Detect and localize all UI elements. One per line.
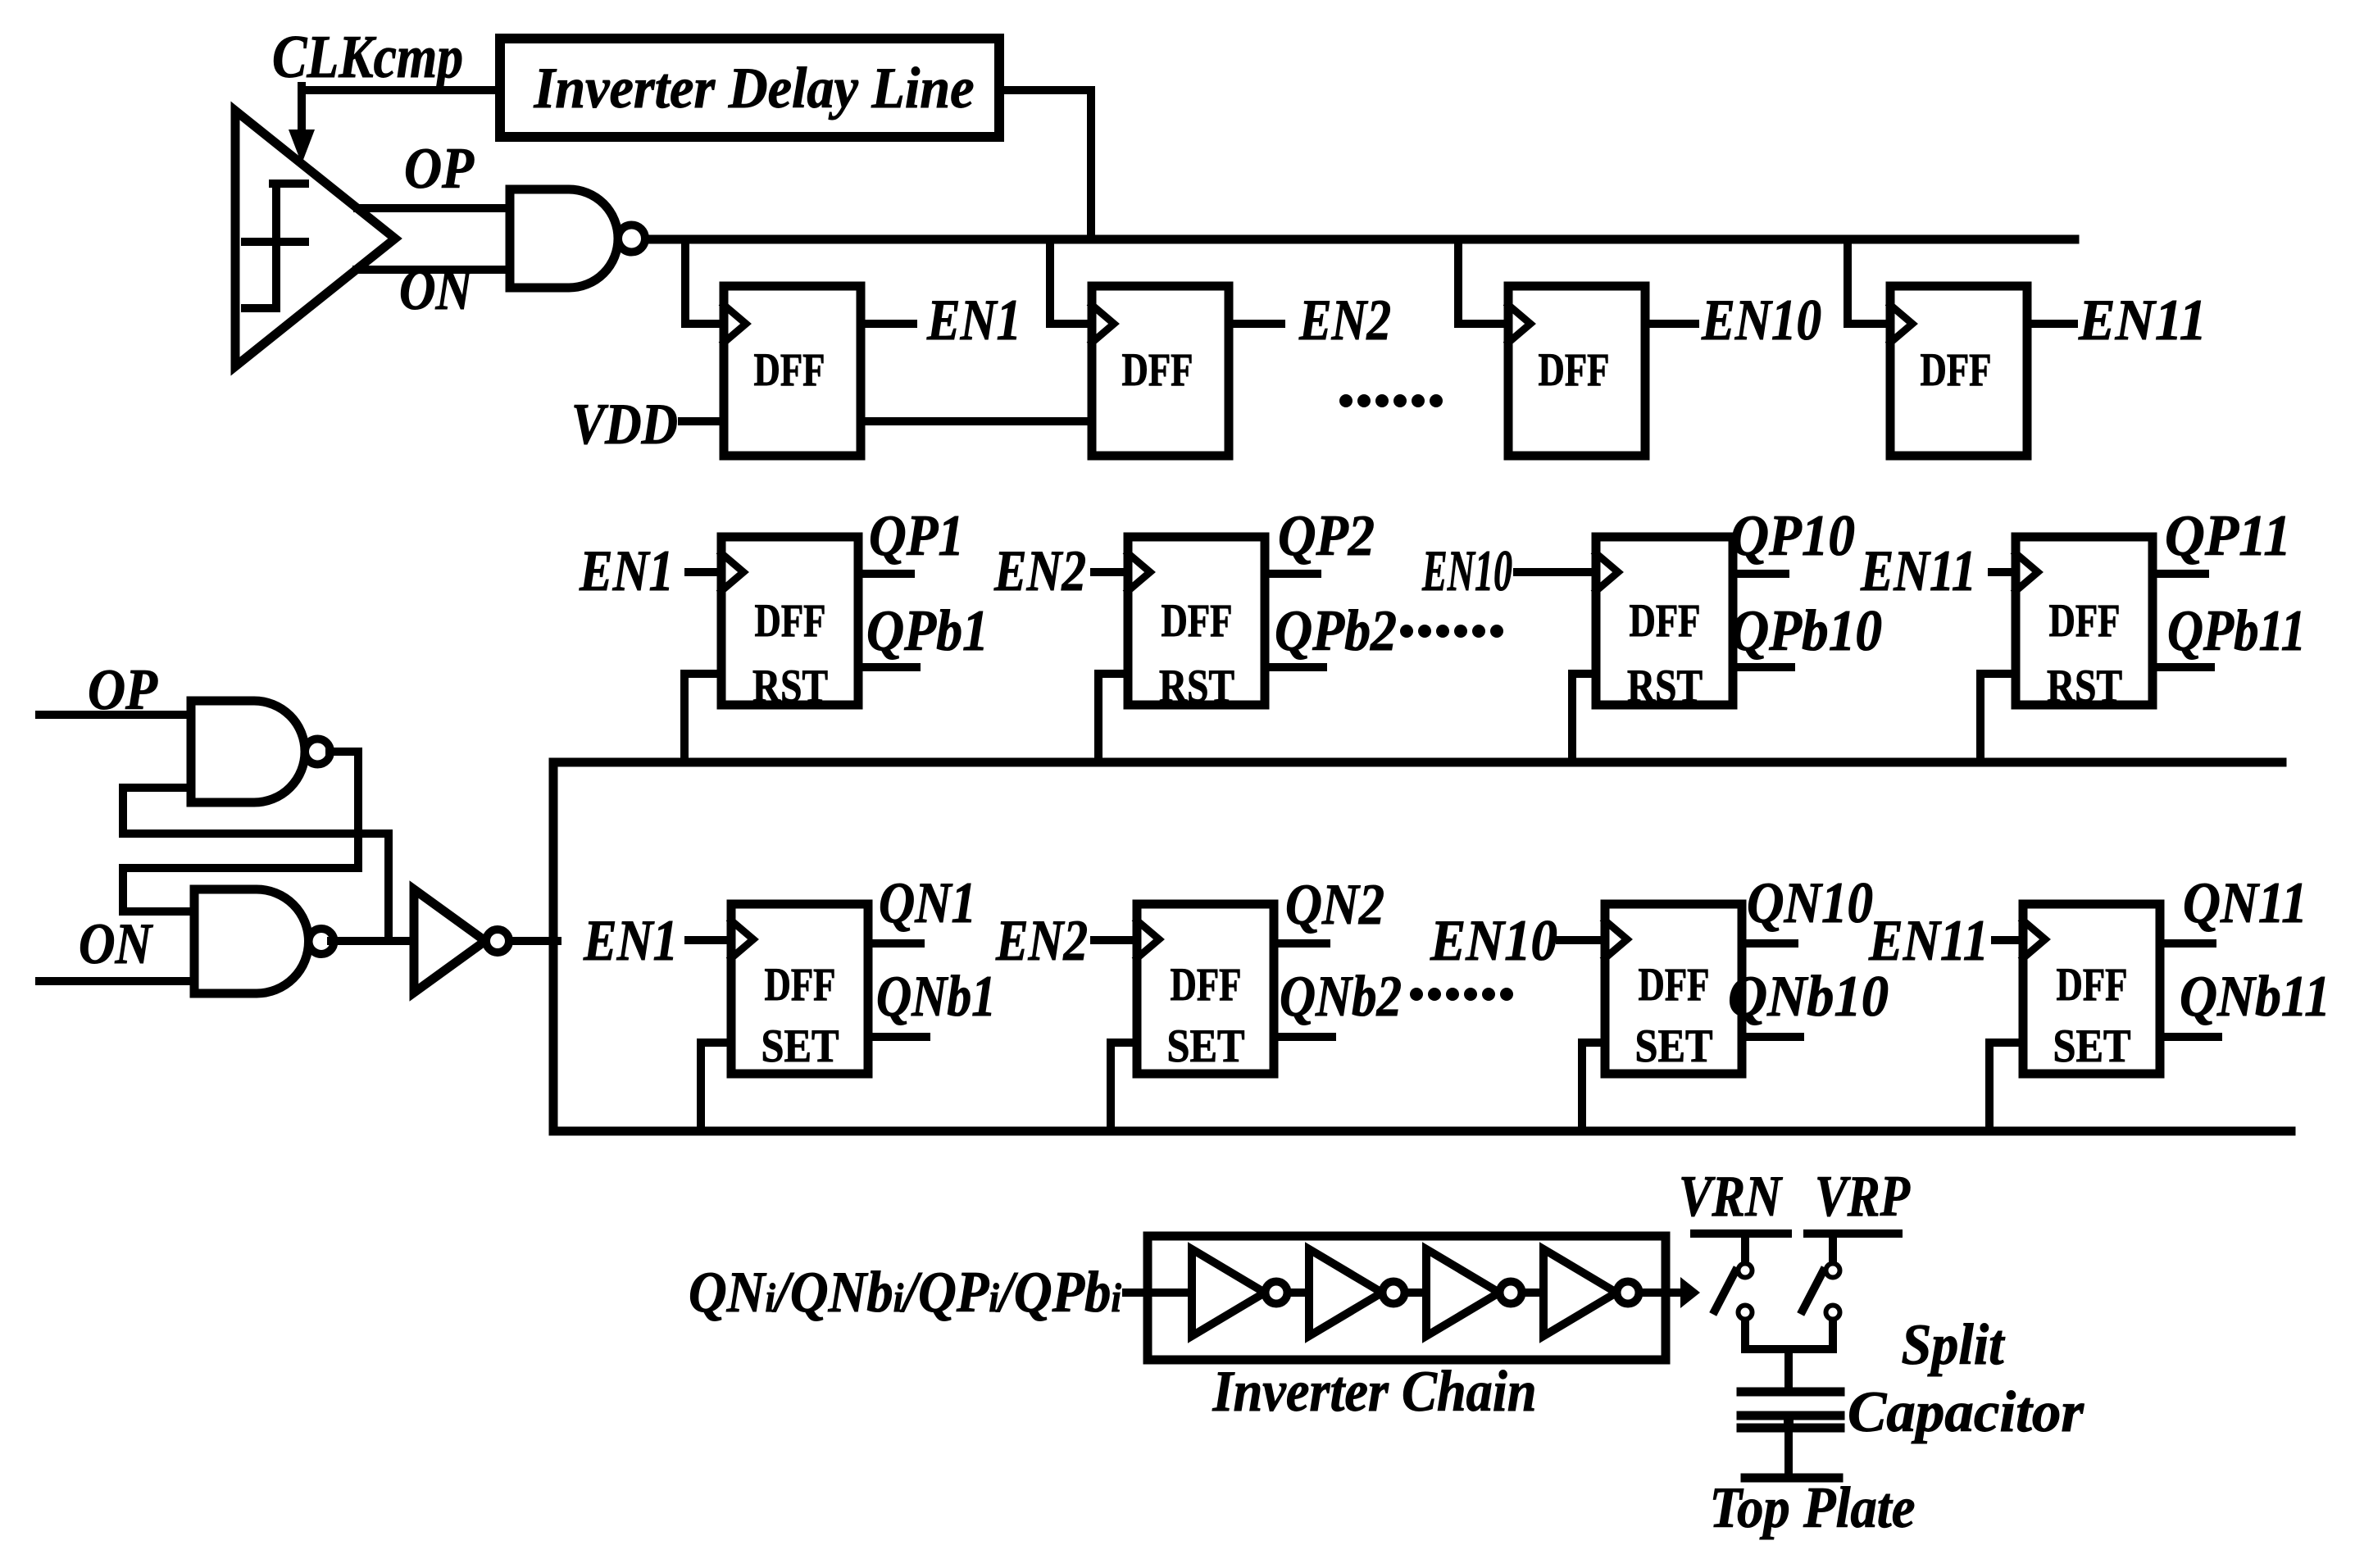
svg-text:DFF: DFF	[2057, 959, 2128, 1011]
svg-text:QN2: QN2	[1285, 873, 1384, 937]
svg-text:VDD: VDD	[571, 393, 678, 457]
svg-text:DFF: DFF	[1630, 595, 1701, 647]
svg-text:QP11: QP11	[2165, 504, 2291, 568]
svg-text:EN11: EN11	[1860, 539, 1976, 603]
svg-text:SET: SET	[1635, 1020, 1713, 1072]
svg-text:OP: OP	[404, 137, 475, 201]
svg-text:DFF: DFF	[754, 344, 825, 396]
svg-text:ON: ON	[79, 912, 153, 976]
svg-text:QNb2: QNb2	[1280, 965, 1402, 1029]
svg-text:DFF: DFF	[1162, 595, 1233, 647]
svg-text:DFF: DFF	[1639, 959, 1710, 1011]
svg-text:EN1: EN1	[579, 539, 674, 603]
svg-text:SET: SET	[762, 1020, 839, 1072]
svg-text:QP10: QP10	[1730, 504, 1855, 568]
svg-text:DFF: DFF	[1539, 344, 1610, 396]
svg-text:RST: RST	[1627, 661, 1703, 712]
svg-text:QNb1: QNb1	[876, 965, 996, 1029]
svg-text:QN10: QN10	[1747, 871, 1873, 935]
svg-text:RST: RST	[752, 661, 828, 712]
svg-text:RST: RST	[1159, 661, 1234, 712]
svg-text:SET: SET	[2053, 1020, 2131, 1072]
svg-text:DFF: DFF	[765, 959, 836, 1011]
svg-text:QN1: QN1	[879, 871, 976, 935]
svg-text:EN10: EN10	[1701, 289, 1821, 352]
svg-text:VRP: VRP	[1815, 1165, 1911, 1229]
svg-text:QP2: QP2	[1278, 504, 1375, 568]
svg-text:EN1: EN1	[926, 289, 1021, 352]
svg-text:EN2: EN2	[995, 909, 1088, 973]
svg-text:ON: ON	[399, 258, 474, 322]
svg-text:EN10: EN10	[1421, 539, 1512, 603]
svg-text:EN1: EN1	[583, 909, 678, 973]
svg-text:Capacitor: Capacitor	[1848, 1380, 2084, 1444]
svg-text:QNi/QNbi/QPi/QPbi: QNi/QNbi/QPi/QPbi	[689, 1261, 1121, 1325]
svg-text:EN11: EN11	[2078, 289, 2207, 352]
svg-text:QPb1: QPb1	[866, 599, 989, 663]
svg-text:Inverter Chain: Inverter Chain	[1212, 1360, 1537, 1424]
svg-text:Inverter Delay Line: Inverter Delay Line	[534, 57, 975, 120]
svg-text:DFF: DFF	[1122, 344, 1193, 396]
svg-text:VRN: VRN	[1679, 1165, 1783, 1229]
svg-text:Split: Split	[1902, 1313, 2006, 1377]
svg-text:DFF: DFF	[2049, 595, 2121, 647]
svg-text:EN2: EN2	[993, 539, 1086, 603]
svg-text:RST: RST	[2047, 661, 2122, 712]
svg-text:EN2: EN2	[1298, 289, 1391, 352]
svg-text:QNb10: QNb10	[1728, 965, 1889, 1029]
svg-text:DFF: DFF	[1921, 344, 1992, 396]
svg-text:Top Plate: Top Plate	[1710, 1476, 1916, 1540]
svg-text:QPb10: QPb10	[1730, 599, 1882, 663]
svg-text:QPb2: QPb2	[1275, 599, 1397, 663]
svg-text:DFF: DFF	[1171, 959, 1242, 1011]
svg-text:CLKcmp: CLKcmp	[272, 24, 463, 91]
svg-text:QN11: QN11	[2183, 871, 2307, 935]
svg-text:QPb11: QPb11	[2167, 599, 2306, 663]
svg-text:QNb11: QNb11	[2180, 965, 2330, 1029]
svg-text:EN11: EN11	[1868, 909, 1989, 973]
svg-text:DFF: DFF	[755, 595, 826, 647]
svg-text:EN10: EN10	[1430, 909, 1557, 973]
svg-text:SET: SET	[1167, 1020, 1245, 1072]
svg-text:QP1: QP1	[869, 504, 964, 568]
